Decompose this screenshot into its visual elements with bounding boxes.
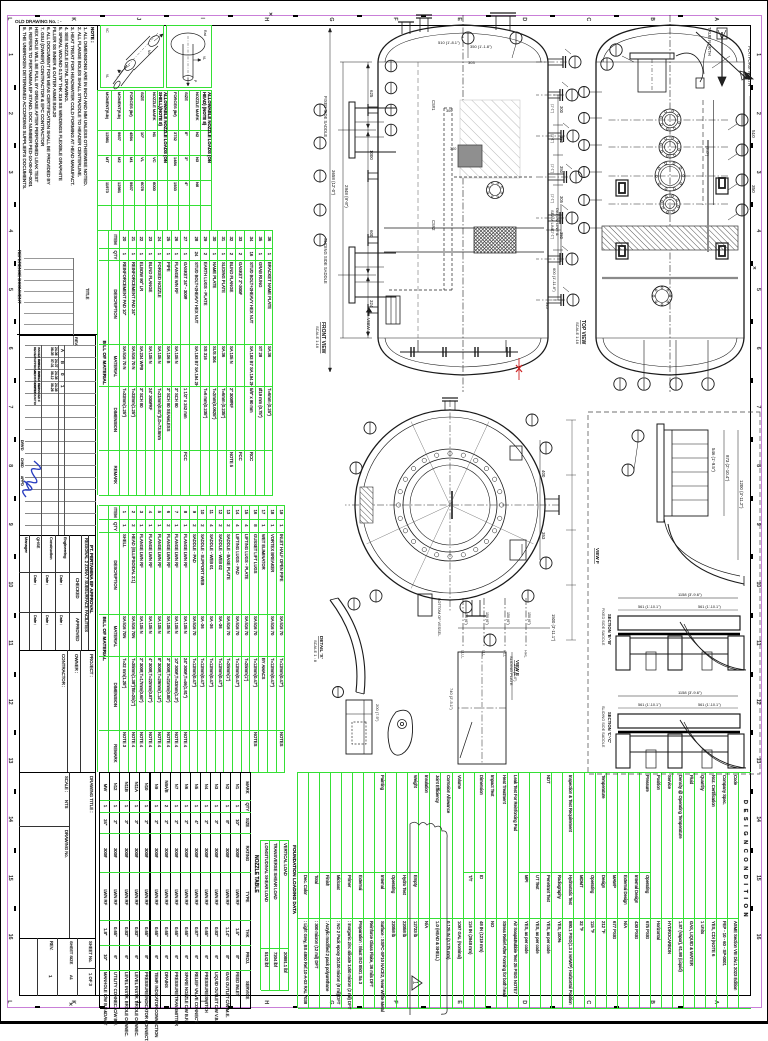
- svg-text:VL: VL: [105, 74, 109, 78]
- svg-text:300: 300: [450, 147, 456, 151]
- svg-text:(1'-1"): (1'-1"): [551, 164, 555, 173]
- svg-text:BOTTOM OF VESSEL: BOTTOM OF VESSEL: [437, 598, 441, 636]
- svg-text:TRUE NORTH: TRUE NORTH: [707, 27, 712, 56]
- svg-text:303: 303: [468, 60, 475, 65]
- svg-text:DETAIL 'X': DETAIL 'X': [319, 636, 324, 659]
- svg-text:SLIDING SIDE SADDLE: SLIDING SIDE SADDLE: [323, 238, 328, 284]
- svg-text:561 (1'-10.1"): 561 (1'-10.1"): [638, 703, 661, 707]
- svg-text:CS#1: CS#1: [431, 100, 436, 111]
- svg-text:SECTION 'B'-'B': SECTION 'B'-'B': [607, 614, 612, 645]
- svg-text:(1'-1"): (1'-1"): [551, 104, 555, 113]
- svg-text:VL: VL: [202, 56, 206, 60]
- svg-text:1158 (3'-9.6"): 1158 (3'-9.6"): [678, 690, 702, 695]
- svg-text:546 (1'-9.5"): 546 (1'-9.5"): [711, 448, 716, 472]
- svg-text:324: 324: [369, 300, 374, 308]
- svg-text:PLATFORM NORTH: PLATFORM NORTH: [747, 46, 752, 86]
- svg-text:1200 (3'-11.2"): 1200 (3'-11.2"): [739, 480, 744, 509]
- svg-text:625: 625: [369, 90, 374, 98]
- svg-text:240 (9.4"): 240 (9.4"): [513, 664, 518, 682]
- svg-text:1500 (3'-11.1"): 1500 (3'-11.1"): [551, 614, 556, 642]
- svg-text:SECTION 'C'-'C': SECTION 'C'-'C': [607, 712, 612, 743]
- svg-text:150 (6"): 150 (6"): [527, 612, 531, 625]
- svg-text:150 (6"): 150 (6"): [464, 612, 468, 625]
- svg-text:510: 510: [751, 130, 756, 138]
- svg-text:300: 300: [559, 106, 564, 114]
- svg-text:510 (1'-8.1"): 510 (1'-8.1"): [438, 40, 460, 45]
- svg-text:(1'-1"): (1'-1"): [551, 194, 555, 203]
- svg-text:600 (1'-11.6"): 600 (1'-11.6"): [552, 268, 557, 292]
- svg-text:HHL: HHL: [524, 650, 528, 658]
- svg-text:1000: 1000: [369, 150, 374, 160]
- svg-text:LLLL: LLLL: [461, 650, 465, 658]
- svg-text:305: 305: [559, 196, 564, 204]
- svg-text:150 (6"): 150 (6"): [485, 612, 489, 625]
- svg-text:P: P: [193, 80, 197, 83]
- svg-text:SCALE 1 : 8: SCALE 1 : 8: [313, 640, 318, 663]
- svg-text:TOP VIEW: TOP VIEW: [580, 320, 586, 345]
- svg-text:Rad: Rad: [203, 30, 207, 36]
- svg-text:350: 350: [559, 166, 564, 174]
- svg-text:VC: VC: [105, 28, 109, 33]
- svg-text:DATUM LINE &: DATUM LINE &: [555, 208, 560, 236]
- svg-text:561 (1'-10.1"): 561 (1'-10.1"): [698, 703, 721, 707]
- svg-text:CS#2: CS#2: [431, 220, 436, 231]
- svg-text:VIEW F: VIEW F: [595, 548, 600, 564]
- svg-text:345: 345: [545, 302, 550, 309]
- svg-text:1158 (3'-9.6"): 1158 (3'-9.6"): [678, 592, 702, 597]
- svg-text:561 (1'-10.1"): 561 (1'-10.1"): [698, 605, 721, 609]
- svg-text:400: 400: [541, 470, 546, 478]
- svg-text:600: 600: [369, 230, 374, 238]
- svg-text:200 (7.9"): 200 (7.9"): [375, 704, 380, 722]
- svg-text:150 (6"): 150 (6"): [506, 612, 510, 625]
- svg-text:SLIDING SIDE SADDLE: SLIDING SIDE SADDLE: [601, 706, 605, 748]
- svg-text:561 (1'-10.1"): 561 (1'-10.1"): [638, 605, 661, 609]
- svg-text:740 (2'-5.1"): 740 (2'-5.1"): [449, 688, 454, 710]
- svg-text:873 (2'-10.4"): 873 (2'-10.4"): [725, 455, 730, 482]
- svg-text:3658 (12'-0"): 3658 (12'-0"): [331, 170, 336, 196]
- svg-text:(1'-1"): (1'-1"): [551, 230, 555, 239]
- svg-text:2948 (9'-8"): 2948 (9'-8"): [344, 185, 349, 208]
- svg-text:SCALE 1:16: SCALE 1:16: [575, 322, 580, 345]
- svg-text:FIXED SIDE SADDLE: FIXED SIDE SADDLE: [323, 96, 328, 137]
- svg-text:SCALE 1:16: SCALE 1:16: [315, 326, 320, 349]
- svg-text:(1'-1"): (1'-1"): [551, 134, 555, 143]
- svg-text:M1: M1: [147, 50, 151, 55]
- svg-text:350: 350: [751, 185, 756, 193]
- svg-text:FRONT VIEW: FRONT VIEW: [320, 322, 326, 354]
- svg-text:300: 300: [446, 109, 452, 113]
- svg-text:FIXED SIDE SADDLE: FIXED SIDE SADDLE: [601, 608, 605, 646]
- svg-text:353: 353: [541, 532, 546, 540]
- svg-text:350 (1'-1.8"): 350 (1'-1.8"): [470, 44, 492, 49]
- svg-text:(5'-0"): (5'-0"): [705, 146, 709, 157]
